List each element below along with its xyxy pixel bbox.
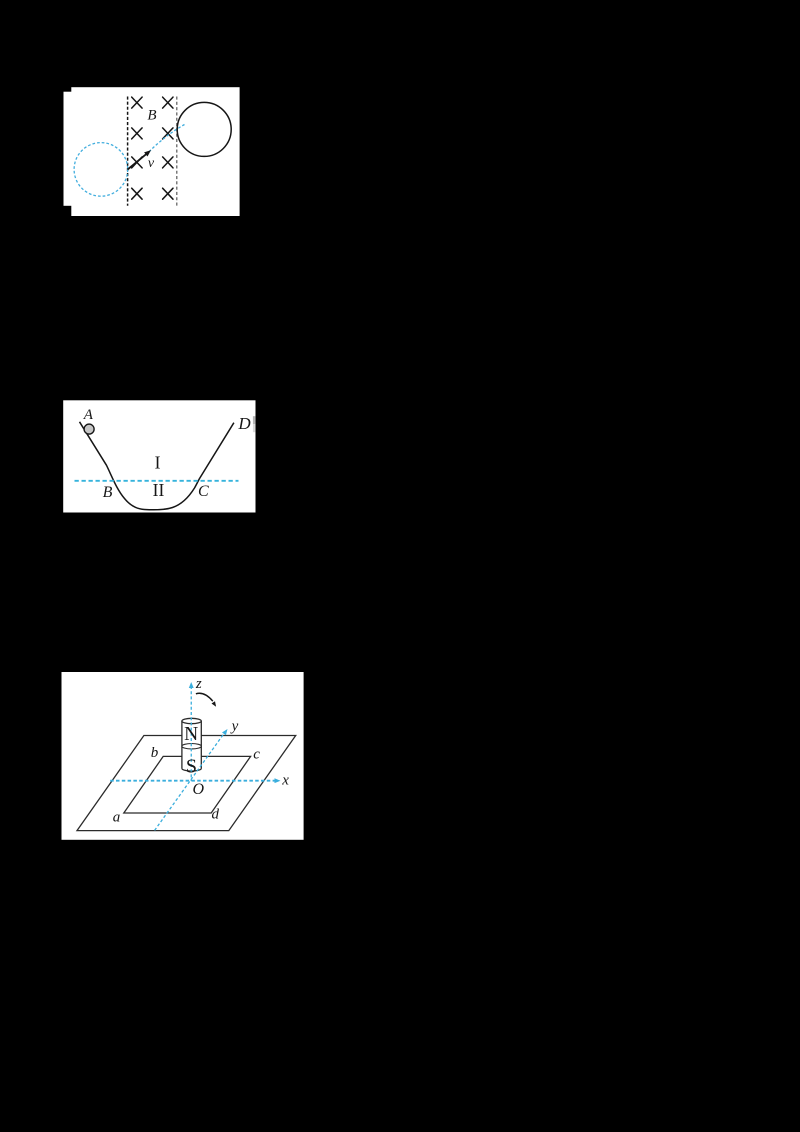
X mark r1c2 (163, 97, 173, 108)
svg-text:D: D (237, 414, 251, 433)
svg-text:c: c (253, 747, 260, 763)
svg-text:S: S (186, 755, 197, 777)
gray fragment at right edge (253, 416, 255, 424)
svg-text:O: O (193, 781, 205, 798)
white panel main (71, 87, 239, 216)
svg-text:a: a (113, 810, 121, 826)
svg-text:d: d (211, 807, 219, 823)
rotation arrow around z (196, 693, 216, 706)
magnet middle ellipse divider (182, 744, 201, 749)
dashed blue circle (orbit left) (74, 143, 128, 197)
y axis dashed (155, 730, 227, 830)
field boundary left dashed line (127, 97, 129, 206)
svg-text:b: b (151, 745, 159, 761)
svg-text:I: I (155, 452, 161, 472)
solid black circle (orbit right) (177, 102, 231, 156)
svg-text:II: II (153, 480, 165, 500)
x axis dashed (110, 780, 276, 782)
z axis arrowhead (189, 682, 194, 688)
svg-text:B: B (103, 484, 113, 501)
outer plane parallelogram (77, 736, 296, 831)
svg-text:y: y (230, 719, 239, 735)
X mark r3c2 (163, 157, 173, 168)
svg-text:x: x (281, 772, 289, 788)
X mark r2c2 (163, 128, 173, 139)
white panel left tab (64, 92, 73, 206)
velocity arrow v (128, 150, 151, 169)
x axis arrowhead (275, 778, 281, 783)
svg-text:C: C (198, 483, 209, 500)
svg-text:A: A (83, 407, 94, 423)
X mark r1c1 (132, 97, 142, 108)
field boundary right dashed line (176, 97, 178, 206)
svg-text:B: B (147, 108, 156, 124)
X field marks (2 cols x 4 rows) (132, 97, 173, 199)
svg-text:N: N (184, 724, 198, 745)
svg-text:v: v (148, 156, 155, 171)
inner coil abcd (124, 756, 251, 813)
X mark r2c1 (132, 128, 142, 139)
z axis dashed (190, 686, 192, 781)
white panel (62, 672, 304, 840)
y axis arrowhead (222, 729, 228, 735)
X mark r4c1 (132, 188, 142, 199)
svg-text:z: z (195, 676, 202, 692)
track curve A-B-C-D (80, 422, 234, 510)
X mark r4c2 (163, 188, 173, 199)
white panel (63, 400, 255, 512)
dashed cyan level line (75, 480, 239, 482)
X mark r3c1 (132, 157, 142, 168)
dashed blue trajectory in field (149, 125, 185, 152)
magnet cylinder body (182, 721, 201, 771)
magnet top ellipse (182, 718, 201, 723)
ball at A (84, 424, 94, 434)
